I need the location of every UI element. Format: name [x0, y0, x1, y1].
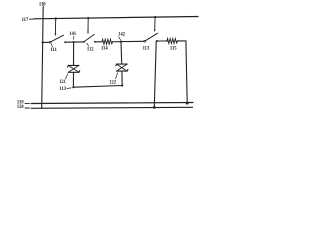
- leader dash for 120: [25, 107, 30, 109]
- wire resistor 114 to node 142: [112, 41, 121, 43]
- label 142: [118, 32, 125, 38]
- wire control arrow stem for switch 112: [87, 18, 89, 32]
- node dot on H117 x88: [87, 17, 89, 19]
- node dot before resistor 115: [166, 40, 168, 42]
- wire row segment 111 to node 141: [65, 41, 73, 43]
- svg-text:111: 111: [50, 47, 57, 53]
- switch S113 blade: [146, 33, 158, 41]
- wire 112 to resistor 114: [95, 41, 102, 43]
- switch S111 blade: [51, 35, 64, 42]
- node dot on H117 x56: [55, 17, 57, 19]
- resistor R114: [102, 39, 112, 44]
- label 119: [17, 100, 24, 106]
- label 114: [101, 46, 108, 52]
- node dot row start on left vertical: [42, 41, 44, 43]
- switch S112 right contact dot: [94, 41, 96, 43]
- wire control arrow stem for switch 113: [154, 17, 156, 29]
- wire right vertical down to H119: [186, 41, 187, 103]
- svg-text:141: 141: [69, 31, 76, 37]
- label 110: [39, 2, 46, 8]
- svg-text:115: 115: [170, 46, 177, 52]
- node dot on H119 right: [186, 102, 189, 105]
- label 113 node: [59, 86, 66, 92]
- wire left vertical from 110: [42, 6, 44, 108]
- arrowhead to switch 112: [87, 32, 89, 35]
- wire control arrow stem for switch 111: [54, 19, 56, 34]
- label 115: [170, 46, 177, 52]
- svg-text:117: 117: [22, 17, 29, 23]
- svg-text:113: 113: [143, 45, 150, 51]
- wire leader dash for 117: [29, 18, 33, 20]
- leader for 141: [73, 36, 75, 39]
- label 117: [22, 17, 29, 23]
- wire row segment 142 to switch 113: [121, 40, 144, 42]
- leader dash for node 113: [67, 87, 71, 90]
- node dot bottom right H113: [121, 84, 123, 86]
- svg-text:110: 110: [39, 2, 46, 8]
- wire H117 top supply line: [34, 17, 198, 19]
- svg-text:121: 121: [59, 79, 66, 85]
- wire 142 down to diode 122: [120, 42, 123, 65]
- switch S113 right contact dot: [156, 40, 158, 42]
- switch S111 pivot contact: [49, 41, 51, 43]
- arrowhead to switch 111: [55, 34, 57, 37]
- label 112: [87, 46, 94, 52]
- label 141: [69, 31, 76, 37]
- wire diode 122 to node 113 right: [121, 71, 123, 85]
- leader for 122: [115, 73, 117, 79]
- wire long vertical from switch 113 node down to H120: [154, 41, 156, 107]
- wire row segment 141 to switch 112: [74, 41, 84, 43]
- svg-text:112: 112: [87, 46, 94, 52]
- label 120: [17, 104, 24, 110]
- resistor R115: [167, 39, 177, 44]
- svg-text:142: 142: [118, 32, 125, 38]
- switch S113 pivot contact: [144, 40, 146, 42]
- node 142 dot: [120, 41, 122, 43]
- wire 113 to resistor 115: [157, 40, 167, 42]
- leader for 121: [66, 74, 68, 79]
- label 113 switch: [143, 45, 150, 51]
- wire H113 connecting diode bottoms: [73, 86, 122, 88]
- switch S112 blade: [85, 34, 95, 41]
- svg-text:120: 120: [17, 104, 24, 110]
- label 122: [109, 79, 116, 85]
- wire H119 bus line: [31, 103, 193, 104]
- arrowhead to switch 113: [154, 29, 156, 32]
- node dot on H120: [153, 106, 156, 109]
- wire row segment to switch 111: [43, 41, 50, 43]
- wire 141 down to diode 121: [73, 42, 75, 65]
- switch S112 pivot contact dot: [83, 41, 85, 43]
- svg-text:122: 122: [109, 79, 116, 85]
- node dot bottom left H113: [72, 86, 74, 88]
- wire resistor 115 to right corner: [177, 40, 186, 42]
- leader for 111: [51, 44, 52, 47]
- label 121: [59, 79, 66, 85]
- node dot on H117 x155: [154, 16, 156, 18]
- node dot on H119 crossing: [154, 102, 156, 104]
- wire diode 121 to node 113: [72, 72, 74, 87]
- leader for 142: [119, 37, 121, 40]
- wire H120 bus line: [31, 107, 192, 108]
- label 111: [50, 47, 57, 53]
- diode D121 bidirectional zener: [68, 65, 80, 72]
- svg-text:114: 114: [101, 46, 108, 52]
- svg-text:113: 113: [59, 86, 66, 92]
- diode D122 bidirectional zener: [116, 64, 128, 71]
- switch S111 right contact dot: [64, 41, 66, 43]
- leader for 112: [87, 43, 89, 46]
- leader dash for 119: [25, 102, 30, 104]
- node 141 dot: [73, 41, 75, 43]
